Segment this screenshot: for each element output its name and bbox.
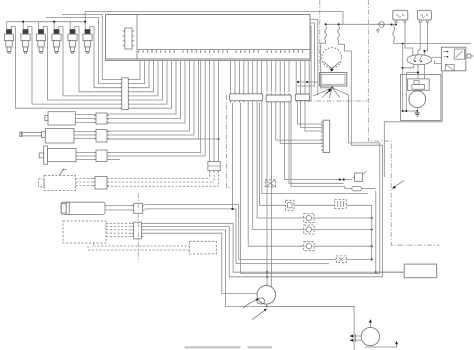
wire A2 (145, 209, 329, 264)
FL1 left wire (395, 22, 397, 24)
wire B2 (143, 227, 382, 277)
ECU to J1 wires (130, 61, 140, 80)
connector A (134, 203, 143, 213)
fuse F1 (379, 22, 385, 28)
starter solenoid (408, 79, 430, 90)
spark plug fan wires (313, 88, 332, 96)
ignition distributor D10 (257, 286, 276, 305)
FL2 left wire (418, 22, 420, 55)
box RB feed (376, 271, 404, 273)
boundary line 2 (368, 0, 439, 245)
ECU internal connector (125, 28, 132, 49)
sensor S5 throttle position (61, 202, 105, 214)
wire B4 (143, 233, 257, 293)
connector C4 (95, 177, 107, 190)
sensor S3 knock (48, 148, 77, 161)
fusible link FL (393, 25, 395, 27)
sensor S2 crankshaft position (45, 129, 74, 144)
spark fan point (331, 87, 333, 89)
FL2 right wire (424, 22, 427, 55)
injector harness wire 1 (16, 27, 122, 109)
bus junction node C (84, 21, 86, 23)
relay tab (467, 54, 471, 58)
box RB (404, 264, 437, 278)
relay R1 box (441, 47, 465, 71)
dashed wires C4 to K (107, 178, 210, 180)
wire CB2 to VC pin b (280, 104, 323, 144)
long bottom wire (241, 273, 380, 275)
bus junction node A (22, 21, 24, 23)
injector harness wire 3 (48, 27, 122, 101)
distributor rotor chord (324, 62, 341, 69)
wire B1 (143, 223, 404, 272)
fuel injector 3 (36, 22, 47, 53)
wire CB1 d (253, 103, 304, 230)
boundary line 1 (319, 0, 321, 70)
fusible link box FL1 (393, 10, 408, 20)
fuel injector 5 (68, 22, 79, 53)
rotor tip triangle (330, 69, 334, 72)
FL1 right wire (405, 22, 413, 55)
vertical connector VC (323, 120, 330, 152)
ECU U1 main box (106, 15, 311, 61)
junction dots row (298, 81, 318, 83)
boundary line 3 (297, 100, 368, 102)
coil node 2 (338, 23, 340, 25)
right bus vertical 2 (375, 191, 377, 273)
coil box lead (331, 86, 333, 88)
solenoid feeds (417, 65, 419, 79)
wire CB2 f (289, 104, 344, 184)
footer bar 2 (247, 346, 272, 348)
connector J1 injector harness (122, 78, 129, 110)
R3 wire (346, 204, 371, 206)
ECU right stub 3 (297, 23, 314, 86)
boundary line 5 (227, 95, 232, 188)
ECU to connector K wires (209, 61, 211, 162)
ignition switch SW1 (407, 55, 432, 65)
wire CB3 b (301, 102, 324, 127)
A1 top arrow (369, 322, 371, 327)
sensor S4 vehicle speed (dashed) (44, 176, 76, 191)
connector bar CB2 (266, 95, 291, 102)
ignition bus (326, 23, 396, 25)
alternator A1 (361, 327, 379, 345)
ECU bottom pin row (138, 50, 140, 52)
page arrow (392, 181, 404, 189)
starter ground bus (402, 44, 404, 112)
wire CB2 to VC pin (276, 104, 323, 140)
diode R1 (352, 186, 362, 191)
injector harness wire 5 (79, 27, 122, 92)
wire CB1 to node (231, 103, 233, 209)
fuel injector 1 (4, 22, 15, 53)
A1 left arrows (353, 335, 362, 337)
D10 switch arm 2 (252, 309, 267, 320)
wire CB3 c (305, 102, 323, 131)
ECU right stub 2 (310, 26, 311, 101)
connector K (208, 162, 220, 171)
fuel injector 6 (83, 22, 94, 53)
fuel injector 4 (52, 22, 63, 53)
wire CB1 c (248, 103, 304, 247)
relay bottom wire (384, 71, 442, 177)
wire CB1 b (240, 103, 242, 274)
connector C3 (96, 150, 107, 162)
wire CB1 g (262, 103, 368, 194)
dashed wires to D2 (93, 245, 189, 247)
wire CB2 circle feed 2 (270, 104, 272, 287)
lamp LP3 (304, 242, 314, 251)
switch to relay wires (432, 56, 442, 58)
coil L2 tail (339, 40, 383, 277)
lamp LP2 (304, 225, 314, 234)
starter enclosure (401, 75, 441, 121)
coil L1 tail (321, 40, 333, 88)
component R4 (336, 256, 346, 263)
wire CB2 g (291, 102, 352, 189)
R2 wire (294, 204, 335, 206)
knock sensor wires (108, 61, 201, 153)
ECU right stub 1 (310, 20, 318, 96)
ignition coil L2 (338, 26, 340, 40)
ECU to connector bar wires (230, 61, 232, 93)
injector harness wire 6 (94, 27, 122, 88)
component R2 (286, 200, 294, 210)
connector bar CB1 (230, 94, 263, 101)
right bus vertical (371, 205, 373, 259)
ground G1 (415, 113, 421, 116)
A1 bottom wires (365, 344, 397, 347)
connector C2 (96, 130, 107, 143)
wire A1 (145, 205, 372, 260)
lamp LP1 (304, 214, 314, 223)
fusible link box FL2 (417, 10, 431, 20)
connector C1 (96, 113, 107, 124)
oxygen sensor D1 (dashed) (63, 221, 106, 243)
injector harness wire 7 (99, 18, 122, 84)
distributor cap (322, 48, 342, 68)
motor lead (416, 108, 418, 113)
dashed box D2 (189, 241, 216, 254)
wire CB3 to VC top (297, 102, 323, 124)
D10 bottom wire (267, 304, 354, 350)
wire CB2 circle feed 1 (266, 104, 268, 286)
fan arrow (326, 89, 331, 93)
sensor S1 camshaft position (48, 112, 75, 125)
wire CB2 e (285, 104, 353, 180)
fuse tap mark (376, 28, 380, 32)
ignition coil box (319, 73, 346, 87)
injector harness wire 4 (63, 27, 122, 96)
footer bar 1 (185, 346, 241, 348)
ECU to camshaft sensor wires (108, 61, 177, 115)
wire with nodes (339, 179, 341, 181)
injector harness wire 2 (32, 27, 122, 105)
connector B (134, 222, 142, 239)
wire CB1 f (260, 103, 286, 206)
injector supply bus (7, 21, 86, 23)
coil node 1 (325, 23, 327, 25)
connector T1 with lead (355, 173, 363, 182)
fuel injector 2 (21, 22, 32, 53)
wire CB1 e (257, 103, 304, 218)
wire B3 (143, 230, 354, 307)
bus junction node B (53, 21, 55, 23)
fuse nodes (390, 23, 392, 25)
injector harness wire 8 (102, 15, 122, 80)
ECU to crankshaft sensor wires (108, 61, 190, 132)
D10 switch arm 1 (243, 299, 258, 308)
ignition coil L1 (325, 26, 327, 40)
starter motor M1 (409, 91, 426, 108)
boundary line 4 (137, 193, 139, 262)
component R3 (335, 199, 347, 208)
fan wire right branch (349, 95, 380, 274)
diagnostic connector R0 (265, 180, 275, 187)
connector bar CB3 (295, 94, 309, 101)
